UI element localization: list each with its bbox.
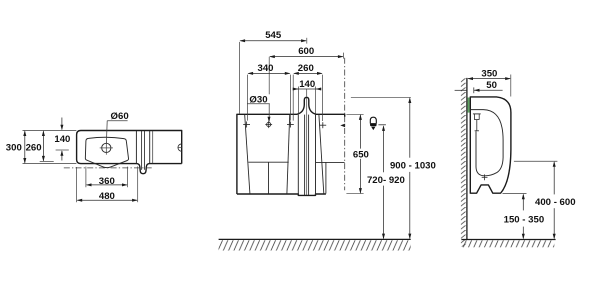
front view outline left and top with flush pipe bump bbox=[237, 97, 345, 194]
dim 340 line bbox=[248, 72, 290, 74]
dim 140 upper arrow bbox=[61, 118, 63, 130]
floor hatch right bbox=[461, 240, 554, 247]
dim 300 extension bottom bbox=[23, 163, 77, 165]
dim 480 line bbox=[77, 199, 137, 201]
dim 260 extension bbox=[40, 161, 54, 163]
dim 900-1030 line bbox=[409, 98, 411, 157]
dim 545 line bbox=[240, 40, 306, 42]
svg-text:360: 360 bbox=[99, 176, 115, 187]
dim 260 extension right bbox=[322, 75, 324, 121]
front basin drain line bbox=[268, 162, 270, 193]
dim 140 extension right bbox=[315, 87, 317, 114]
dim 900-1030 extension top bbox=[351, 96, 411, 98]
front step edge right bbox=[315, 115, 317, 196]
dim 260 line mid bbox=[294, 72, 322, 74]
dim 50 line left part bbox=[455, 89, 467, 91]
dim 480 extension right bbox=[137, 166, 139, 202]
dim 545 center line in bump bbox=[306, 89, 308, 96]
dim 400-600 extension bbox=[514, 160, 558, 162]
svg-text:140: 140 bbox=[54, 134, 70, 145]
dim 140 extension left bbox=[297, 87, 299, 114]
front basin left slant bbox=[245, 115, 250, 194]
svg-text:600: 600 bbox=[298, 46, 314, 57]
svg-text:480: 480 bbox=[99, 191, 115, 202]
dim 50 tick bbox=[473, 87, 475, 93]
svg-text:400 - 600: 400 - 600 bbox=[535, 197, 576, 208]
floor hatch middle bbox=[219, 240, 411, 250]
front flush pipe center line bbox=[306, 98, 308, 195]
label O30 shelf bbox=[247, 103, 270, 105]
svg-text:150 - 350: 150 - 350 bbox=[504, 214, 545, 225]
top view flush channel line b bbox=[141, 131, 143, 170]
dim 50 line and arrow bbox=[474, 89, 503, 91]
top view centerline bbox=[64, 167, 154, 169]
sensor icon arch bbox=[370, 117, 376, 123]
centerline arrow marker bbox=[340, 124, 345, 128]
front view centerline bbox=[344, 58, 346, 191]
wall hatch bbox=[461, 78, 467, 246]
dim 300 extension top bbox=[23, 129, 77, 131]
green inlet mark bbox=[468, 98, 470, 113]
svg-text:140: 140 bbox=[299, 79, 315, 90]
front right section slant bbox=[319, 115, 324, 194]
label O60 shelf bbox=[107, 120, 127, 122]
dim 350 line bbox=[468, 78, 510, 80]
floor line middle bbox=[219, 238, 411, 240]
mounting hole O30 circle bbox=[267, 122, 271, 126]
label O30 leader arrow bbox=[268, 104, 270, 121]
svg-text:350: 350 bbox=[481, 68, 497, 79]
spout hole circle bbox=[102, 143, 111, 152]
floor line right bbox=[461, 239, 555, 241]
dim 400-600 line bbox=[553, 162, 555, 194]
svg-text:900 - 1030: 900 - 1030 bbox=[390, 161, 436, 172]
dim 600 extension left bbox=[268, 57, 270, 95]
front basin mid line bbox=[248, 161, 288, 163]
dim 140 line and outside arrows bbox=[293, 88, 299, 90]
svg-text:260: 260 bbox=[298, 63, 314, 74]
dim 600 extension right tick bbox=[343, 53, 345, 59]
front step edge left bbox=[297, 115, 299, 196]
dim 260 extension left bbox=[292, 75, 294, 121]
front basin right slant bbox=[287, 115, 290, 194]
svg-text:650: 650 bbox=[353, 150, 369, 161]
front flush pipe line left bbox=[304, 115, 306, 195]
dim 650 line bbox=[359, 115, 361, 149]
dim 650 extension top bbox=[346, 113, 363, 115]
drain cross bbox=[482, 176, 488, 178]
front right section mid line bbox=[316, 161, 345, 163]
sensor leader bbox=[378, 124, 386, 126]
top view body outline bbox=[77, 131, 182, 174]
dim 350 extension right bbox=[510, 75, 512, 97]
spout hole crosshair bbox=[100, 147, 113, 149]
sensor icon band bbox=[370, 123, 377, 126]
dim 360 extension left bbox=[85, 167, 87, 188]
mounting hole cross 1 bbox=[243, 124, 250, 126]
sensor icon drop bbox=[371, 127, 375, 131]
side view outline bbox=[470, 97, 511, 193]
svg-text:545: 545 bbox=[265, 30, 282, 41]
svg-text:340: 340 bbox=[257, 63, 273, 74]
mounting hole cross 2 bbox=[287, 124, 294, 126]
dim 545 extension left bbox=[239, 42, 241, 114]
dim 150-350 line bbox=[522, 195, 524, 211]
svg-text:300: 300 bbox=[6, 142, 22, 153]
svg-text:50: 50 bbox=[486, 80, 497, 91]
water inlet spud bbox=[473, 113, 481, 115]
label O60 leader bbox=[105, 121, 108, 144]
dim 600 line bbox=[270, 56, 343, 58]
front right section drain line bbox=[325, 162, 327, 193]
top view flush channel line d bbox=[149, 131, 151, 163]
dim 300 line bbox=[24, 131, 26, 163]
top view basin outline bbox=[85, 137, 128, 167]
dim 480 extension left bbox=[76, 167, 78, 202]
dim 545 extension right tick bbox=[306, 38, 308, 44]
mounting hole cross 3 bbox=[319, 124, 326, 126]
svg-text:720- 920: 720- 920 bbox=[367, 175, 405, 186]
top view flush channel line c bbox=[144, 131, 146, 170]
dim 360 extension right bbox=[127, 167, 129, 188]
side inner rim and bowl bbox=[470, 110, 503, 176]
top view flush channel line a bbox=[135, 131, 137, 163]
dim 650 extension bottom bbox=[346, 193, 363, 195]
dim 260 line bbox=[42, 131, 44, 161]
dim 140 lower arrow bbox=[61, 151, 63, 161]
dim 720-920 line bbox=[383, 126, 385, 172]
right edge mounting notch bbox=[178, 144, 182, 151]
dim 140 extension bbox=[56, 149, 69, 151]
svg-text:260: 260 bbox=[26, 142, 42, 153]
dim 340 extension left bbox=[247, 75, 249, 121]
front view bottom edge with step bbox=[237, 194, 326, 195]
dim 360 line bbox=[87, 184, 127, 186]
dim 150-350 extension bbox=[503, 193, 527, 195]
wall line bbox=[466, 78, 468, 240]
dim 340 extension right bbox=[289, 75, 291, 121]
top view flush channel line e bbox=[152, 131, 154, 163]
front flush pipe line right bbox=[308, 115, 310, 195]
